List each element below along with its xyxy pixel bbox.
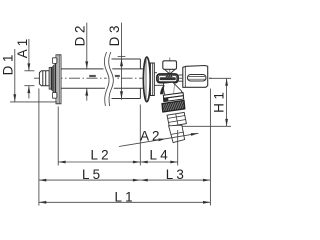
svg-text:L 4: L 4 [150,148,169,163]
dimension L5 [39,179,140,181]
svg-text:D 2: D 2 [72,26,87,47]
flange top knob [52,58,56,64]
pipe break symbol [104,52,113,106]
extension line left nipple [38,89,40,206]
dimension H1 line [226,78,228,126]
dimension L3 [140,179,210,181]
pipe centerline [34,77,212,79]
neck body to cap [179,75,183,81]
svg-text:L 2: L 2 [90,148,108,163]
outer tube D3 [112,59,141,99]
svg-text:D 3: D 3 [107,26,122,47]
extension line valve right [209,89,211,206]
node break smudge left [89,75,96,77]
outlet spout tube [169,125,185,142]
D2 arrow down [85,61,88,68]
dimension D3 line [121,23,123,100]
svg-text:D 1: D 1 [0,55,15,76]
bonnet chamfer V [164,69,175,74]
A2 arrow mid [158,139,166,142]
D1 extension line [10,101,57,103]
neck flange to body [154,73,163,86]
extension line tube end [139,105,141,166]
A2 arrow end [191,133,199,136]
outlet end cap [183,66,208,88]
svg-text:L 5: L 5 [82,167,100,182]
dimension D1 line [14,49,16,102]
valve bonnet cap [163,61,177,70]
svg-text:L 3: L 3 [166,167,184,182]
H1 extension top [209,77,231,79]
step ring [49,68,51,90]
D2 arrow up [85,88,88,95]
body knurled band [160,77,176,80]
H1 arrow up [225,78,228,85]
svg-text:L 1: L 1 [114,189,132,204]
A1 arrow up [27,86,30,93]
outlet dark wedge [160,85,165,94]
H1 extension bottom [182,125,231,127]
dimension A1 line [28,39,30,71]
A1 arrow down [27,63,30,70]
dimension L2 [58,161,140,163]
dimension A2 line [119,133,198,146]
outlet thin knurl ring [163,93,183,99]
serrated cone [51,63,56,96]
dimension D2 line [86,23,88,69]
valve body [157,74,178,83]
dimension L4 [140,161,177,163]
flange bottom knob [52,93,56,99]
wall flange plate [56,55,61,104]
D3 arrow up [120,59,123,66]
outlet grid block [167,112,186,126]
D3 top tick [118,55,126,57]
dimension L1 [39,201,211,203]
H1 arrow down [225,119,228,126]
extension line outlet axis [177,130,179,166]
A1 tick top [24,70,34,72]
svg-text:A 1: A 1 [15,39,30,58]
D1 arrow down [13,94,16,101]
outlet cone below body [163,82,183,96]
svg-text:H 1: H 1 [212,92,227,113]
end cap slot [188,75,207,82]
D3 arrow down [120,91,123,98]
svg-text:A 2: A 2 [140,129,159,144]
A1 tick bottom [24,85,34,87]
pipe D2 outline [61,69,144,88]
node break smudge right [113,75,120,77]
extension line flange [57,107,59,166]
valve rosette flange [143,57,150,102]
valve stem axis [169,58,171,74]
left nipple fitting [39,71,49,86]
outlet union nut knurled [162,100,185,112]
